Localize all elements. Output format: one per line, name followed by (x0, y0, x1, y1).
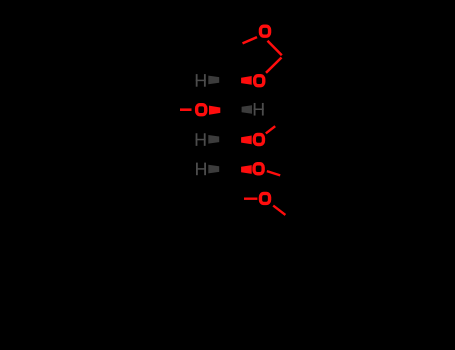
atom H1 (row1 H) (196, 74, 206, 87)
atom O5 (row4 methoxy oxygen) (254, 164, 263, 174)
wedge C2a-O5 (241, 165, 252, 174)
wedge C3a-O4 (241, 136, 252, 145)
bond O5-CH3 (267, 171, 280, 175)
hash C3a-H3 (208, 135, 219, 144)
bond O1-C5 (243, 37, 258, 43)
hash C2a-H4 (208, 165, 219, 174)
atom H2 (row2 H) (254, 103, 264, 116)
atom H4 (row4 H) (196, 163, 206, 176)
atom O1 (dioxolane top oxygen) (260, 26, 269, 36)
atom O6 (bottom methoxy oxygen) (260, 193, 269, 203)
atom O2 (row2 methoxy oxygen) (197, 105, 206, 115)
wedge C4-O3 (241, 76, 252, 85)
bond O4-CH3 (266, 126, 275, 133)
hash C4-H1 (208, 76, 219, 85)
bond C2-O3 (266, 58, 282, 73)
bond O6-CH3 (273, 206, 285, 215)
bond O1-C2 (268, 41, 282, 55)
wedge C5a-O2 (209, 106, 220, 115)
hash C5a-H2 (242, 105, 252, 114)
atom O3 (dioxolane bottom oxygen) (255, 76, 264, 86)
atom H3 (row3 H) (196, 133, 206, 146)
bond C1-O6 (244, 197, 257, 199)
atom O4 (row3 methoxy oxygen) (254, 135, 263, 145)
bond O2-CH3 (180, 108, 192, 111)
